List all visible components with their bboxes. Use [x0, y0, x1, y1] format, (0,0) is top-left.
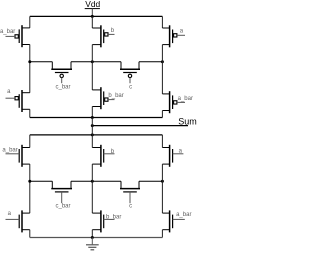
wire left column N2-gnd — [29, 230, 31, 238]
transistor M3 pmos c (horizontal) — [120, 62, 140, 83]
transistor M13 nmos a — [162, 145, 183, 167]
net label c_bar (M10 gate) — [55, 204, 70, 210]
wire bus PH mid — [71, 61, 121, 63]
wire rail B (sum out) — [92, 125, 188, 127]
node dot left busN — [28, 180, 31, 183]
transistor M12 nmos b — [92, 145, 114, 167]
node dot right bus — [161, 60, 164, 63]
net label b (M12 gate) — [111, 149, 115, 155]
wire mid column railC-N1 — [91, 135, 93, 148]
wire rail A (sum pmos) — [30, 117, 163, 119]
wire bus NH mid — [71, 180, 121, 182]
net label b (M4 gate) — [111, 28, 115, 34]
wire right column P2-railA — [161, 111, 163, 118]
svg-text:c_bar: c_bar — [55, 204, 70, 210]
node dot mid bus — [91, 60, 94, 63]
wire right column P1-bus — [161, 45, 163, 94]
transistor M9 nmos a_bar — [6, 145, 30, 167]
wire bus PH right — [139, 61, 162, 63]
node dot right busN — [161, 180, 164, 183]
node Vdd junction dot — [91, 15, 94, 18]
ground — [86, 238, 99, 250]
wire mid column P2-railA — [91, 107, 93, 118]
transistor M5 pmos a — [162, 25, 185, 47]
wire ground rail — [30, 237, 163, 239]
node dot railA — [91, 116, 94, 119]
transistor M8 pmos a_bar (row P2 right) — [162, 91, 185, 113]
wire mid column upper — [91, 16, 93, 28]
wire mid column railA-railC — [91, 118, 93, 135]
net label a (M13 gate) — [179, 148, 183, 154]
wire mid column N2-gnd — [91, 230, 93, 238]
svg-text:a_bar: a_bar — [0, 29, 15, 35]
transistor M11 nmos c (horizontal) — [120, 181, 140, 203]
net label c (M11 gate) — [129, 204, 132, 210]
wire left column N1-busN — [29, 164, 31, 213]
transistor M4 pmos b — [92, 25, 114, 47]
node dot mid busN — [91, 180, 94, 183]
wire Vdd rail — [30, 15, 163, 17]
wire rail C (nmos top) — [30, 134, 163, 136]
Vdd underline — [85, 8, 100, 10]
transistor M6 pmos a (row P2 left) — [6, 90, 30, 112]
wire right column upper — [161, 16, 163, 28]
net label c (M3 gate) — [129, 84, 132, 90]
node dot gnd — [91, 236, 94, 239]
node dot railC — [91, 133, 94, 136]
Vdd label — [85, 0, 100, 9]
transistor M1 pmos a_bar — [6, 25, 30, 47]
net label b_bar (M7 gate) — [108, 93, 123, 99]
wire mid column N1-busN — [91, 164, 93, 213]
wire left column railC-N1 — [29, 135, 31, 148]
svg-text:a_bar: a_bar — [176, 212, 191, 218]
node dot railB — [91, 124, 94, 127]
svg-text:a_bar: a_bar — [2, 148, 17, 154]
wire bus NH left — [30, 180, 53, 182]
net label a_bar (M16 gate) — [176, 212, 191, 218]
transistor M10 nmos c_bar (horizontal) — [51, 181, 72, 203]
net label c_bar (M2 gate) — [55, 84, 70, 90]
node dot left bus — [28, 60, 31, 63]
net label a_bar (M8 gate) — [178, 96, 193, 102]
Sum label — [178, 116, 197, 126]
svg-text:c: c — [129, 204, 132, 210]
svg-text:Sum: Sum — [178, 116, 197, 126]
svg-text:Vdd: Vdd — [85, 0, 100, 9]
net label a (M14 gate) — [8, 211, 12, 217]
net label a (M6 gate) — [7, 89, 11, 95]
net label a_bar (M1 gate) — [0, 29, 15, 35]
wire right column N2-gnd — [161, 230, 163, 238]
svg-text:c_bar: c_bar — [55, 84, 70, 90]
wire left column P2-railA — [29, 109, 31, 117]
wire right column railC-N1 — [161, 135, 163, 148]
svg-text:a_bar: a_bar — [178, 96, 193, 102]
transistor M16 nmos a_bar (row N2 right) — [162, 210, 184, 232]
transistor M7 pmos b_bar (row P2 mid) — [92, 87, 114, 109]
net label b_bar (M15 gate) — [106, 214, 121, 220]
wire right column N1-busN — [161, 164, 163, 213]
svg-text:c: c — [129, 84, 132, 90]
wire bus NH right — [139, 180, 162, 182]
wire left column P1-P2 — [29, 45, 31, 93]
transistor M14 nmos a (row N2 left) — [6, 210, 30, 232]
net label a (M5 gate) — [180, 28, 184, 34]
svg-text:b_bar: b_bar — [106, 214, 121, 220]
transistor M2 pmos c_bar (horizontal) — [51, 62, 72, 83]
wire bus PH left — [30, 61, 53, 63]
transistor M15 nmos b_bar (row N2 mid) — [92, 210, 114, 232]
wire left column upper — [29, 16, 31, 28]
net label a_bar (M9 gate) — [2, 148, 17, 154]
wire mid column P1-bus — [91, 45, 93, 90]
wire Vdd stem — [91, 9, 93, 17]
svg-text:b_bar: b_bar — [108, 93, 123, 99]
